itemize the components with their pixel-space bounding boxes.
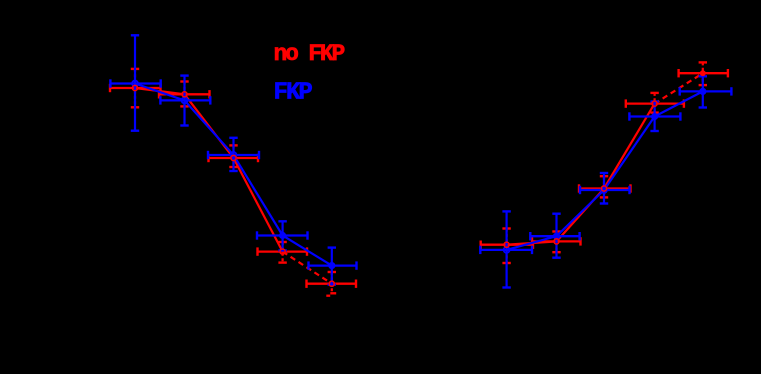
red data point marker RP4 (no FKP, open circle) xyxy=(652,101,657,106)
red horizontal error bar RP5 (no FKP) xyxy=(679,69,728,77)
red horizontal error bar LP5 (no FKP) xyxy=(307,280,357,288)
red horizontal error bar LP4 (no FKP) xyxy=(258,247,308,255)
blue data point marker RP1 (FKP) xyxy=(504,247,510,253)
blue horizontal error bar RP5 (FKP) xyxy=(680,87,732,95)
blue horizontal error bar RP3 (FKP) xyxy=(580,186,630,194)
blue data point marker LP5 (FKP) xyxy=(328,262,335,269)
red vertical error bar LP4 (no FKP) xyxy=(278,242,286,263)
red solid data line R (no FKP) xyxy=(507,104,655,245)
red vertical error bar LP3 (no FKP) xyxy=(229,145,237,167)
red vertical error bar RP5 (no FKP) xyxy=(699,62,707,85)
blue horizontal error bar LP2 (FKP) xyxy=(160,96,210,104)
red horizontal error bar RP2 (no FKP) xyxy=(532,237,581,245)
red vertical error bar RP2 (no FKP) xyxy=(552,232,560,253)
red vertical error bar LP1 (no FKP) xyxy=(131,69,139,107)
red data point marker RP2 (no FKP, open circle) xyxy=(554,239,559,244)
red vertical error bar LP2 (no FKP) xyxy=(180,82,188,107)
blue horizontal error bar LP3 (FKP) xyxy=(208,151,259,159)
red data point marker LP5 (no FKP, open circle) xyxy=(329,281,334,286)
blue solid data line L (FKP) xyxy=(135,84,332,266)
svg-text:FKP: FKP xyxy=(274,79,313,106)
blue vertical error bar RP4 (FKP) xyxy=(650,102,658,132)
blue vertical error bar LP2 (FKP) xyxy=(180,76,188,126)
blue vertical error bar RP3 (FKP) xyxy=(600,173,608,204)
blue vertical error bar RP5 (FKP) xyxy=(699,76,707,107)
blue data point marker LP2 (FKP) xyxy=(182,97,188,103)
red horizontal error bar RP1 (no FKP) xyxy=(481,241,533,249)
blue data point marker RP3 (FKP) xyxy=(601,187,607,193)
red dashed data line segment L (no FKP, last bin) xyxy=(283,252,332,284)
red vertical error bar RP4 (no FKP) xyxy=(650,93,658,113)
blue vertical error bar RP2 (FKP) xyxy=(552,214,560,258)
blue solid data line R (FKP) xyxy=(507,91,703,250)
blue data point marker LP4 (FKP) xyxy=(279,232,286,239)
blue vertical error bar RP1 (FKP) xyxy=(502,211,510,287)
blue vertical error bar LP5 (FKP) xyxy=(328,248,336,285)
blue data point marker LP1 (FKP) xyxy=(132,81,138,87)
red data point marker LP4 (no FKP, open circle) xyxy=(280,249,285,254)
blue horizontal error bar LP5 (FKP) xyxy=(309,261,357,269)
red horizontal error bar RP3 (no FKP) xyxy=(579,184,631,192)
blue horizontal error bar RP2 (FKP) xyxy=(530,232,579,240)
blue vertical error bar LP4 (FKP) xyxy=(278,221,286,250)
red data point marker RP1 (no FKP, open circle) xyxy=(504,242,509,247)
red vertical error bar RP1 (no FKP) xyxy=(502,229,510,264)
red horizontal error bar LP2 (no FKP) xyxy=(159,90,210,98)
svg-text:no FKP: no FKP xyxy=(274,41,345,67)
red vertical error bar LP5 (no FKP) xyxy=(326,272,336,296)
blue horizontal error bar LP4 (FKP) xyxy=(257,231,308,239)
blue data point marker RP5 (FKP) xyxy=(699,88,706,95)
red vertical error bar RP3 (no FKP) xyxy=(600,176,608,197)
red data point marker LP1 (no FKP, open circle) xyxy=(132,85,137,90)
red data point marker RP3 (no FKP, open circle) xyxy=(601,186,606,191)
red dashed data line segment R (no FKP, last bin) xyxy=(655,73,703,103)
red solid data line L (no FKP) xyxy=(135,88,283,252)
blue horizontal error bar LP1 (FKP) xyxy=(110,79,160,87)
blue vertical error bar LP1 (FKP) xyxy=(131,35,139,130)
red data point marker LP3 (no FKP, open circle) xyxy=(231,155,236,160)
blue data point marker LP3 (FKP) xyxy=(231,152,237,158)
red horizontal error bar LP3 (no FKP) xyxy=(209,154,259,162)
blue vertical error bar LP3 (FKP) xyxy=(229,138,237,171)
red data point marker LP2 (no FKP, open circle) xyxy=(182,92,187,97)
blue data point marker RP4 (FKP) xyxy=(651,113,658,120)
blue horizontal error bar RP4 (FKP) xyxy=(629,112,680,120)
red data point marker RP5 (no FKP, open circle) xyxy=(700,70,706,76)
blue data point marker RP2 (FKP) xyxy=(553,233,560,240)
blue horizontal error bar RP1 (FKP) xyxy=(480,246,532,254)
red horizontal error bar RP4 (no FKP) xyxy=(626,99,684,107)
red horizontal error bar LP1 (no FKP) xyxy=(110,84,161,92)
